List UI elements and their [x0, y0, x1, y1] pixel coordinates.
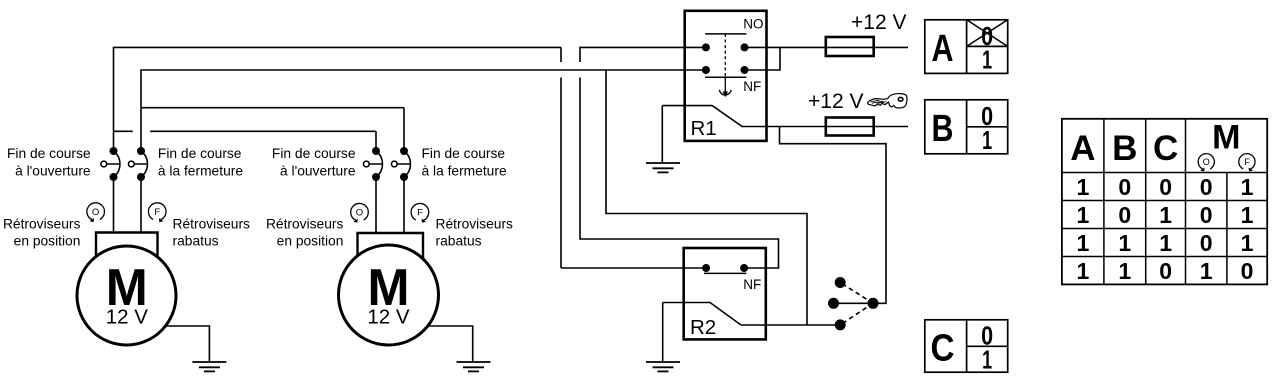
node position-up [835, 277, 846, 288]
svg-text:B: B [1112, 129, 1137, 168]
svg-text:0: 0 [1118, 174, 1131, 200]
motor M2 [339, 233, 439, 345]
svg-text:Fin de course: Fin de course [158, 146, 242, 161]
svg-text:12 V: 12 V [106, 306, 148, 329]
relay R1 [685, 11, 767, 141]
R1 armature dashed link [724, 34, 726, 77]
svg-text:NF: NF [743, 79, 761, 94]
wire [560, 47, 562, 268]
wire [141, 70, 706, 151]
table data rows [1077, 174, 1254, 284]
svg-text:F: F [417, 208, 423, 219]
svg-text:Fin de course: Fin de course [7, 146, 91, 161]
svg-text:0: 0 [1200, 230, 1213, 256]
svg-text:O: O [356, 208, 363, 219]
R2 contact pins [702, 264, 710, 272]
wire [580, 47, 779, 268]
svg-text:1: 1 [982, 125, 992, 155]
svg-text:Rétroviseurs: Rétroviseurs [3, 216, 81, 231]
relay R2 [684, 248, 766, 339]
wire motor M2 to ground [424, 326, 473, 362]
svg-text:R1: R1 [691, 117, 717, 140]
svg-text:en position: en position [14, 233, 81, 248]
R1 contact pins [702, 43, 710, 51]
svg-text:Fin de course: Fin de course [272, 146, 356, 161]
rotation symbol O (M2 en position) [351, 203, 369, 222]
fuse F1 [826, 37, 874, 56]
svg-text:rabatus: rabatus [436, 233, 482, 248]
limit switch S1b (fermeture M1) [128, 147, 147, 181]
svg-text:0: 0 [1200, 202, 1213, 228]
svg-text:en position: en position [277, 233, 344, 248]
svg-text:à l'ouverture: à l'ouverture [280, 164, 356, 179]
wire R2 output to selector [741, 324, 840, 326]
svg-text:rabatus: rabatus [173, 233, 219, 248]
R1 NF bar [705, 76, 746, 78]
label Fin de course à l'ouverture (M1) [7, 146, 91, 179]
svg-text:A: A [1070, 129, 1095, 168]
fuse F2 [826, 118, 874, 136]
svg-text:à l'ouverture: à l'ouverture [15, 164, 91, 179]
node net-ouverture [114, 47, 707, 268]
svg-text:1: 1 [982, 45, 992, 75]
ground under motor M1 [192, 362, 226, 371]
motor M1 [77, 233, 176, 346]
svg-text:+12 V: +12 V [808, 90, 863, 113]
wire [114, 47, 562, 151]
wire +12V key to selector common [780, 127, 887, 304]
wire [561, 267, 706, 269]
R1 armature arrow [719, 77, 731, 97]
svg-text:M: M [1212, 119, 1240, 157]
label Rétroviseurs rabatus (M2) [436, 216, 514, 248]
svg-text:1: 1 [1241, 174, 1254, 200]
svg-text:O: O [92, 207, 99, 218]
signal box C [925, 320, 1008, 375]
svg-text:1: 1 [982, 344, 992, 374]
svg-text:1: 1 [1077, 174, 1090, 200]
svg-text:NF: NF [743, 277, 761, 292]
svg-text:1: 1 [1077, 258, 1090, 284]
node common [868, 298, 879, 309]
label Fin de course à la fermeture (M1) [158, 146, 243, 179]
svg-text:0: 0 [1159, 258, 1172, 284]
key icon (ignition) [868, 94, 907, 108]
node position-mid [828, 298, 839, 309]
wire R2 lever to ground [662, 303, 664, 362]
svg-text:0: 0 [1241, 258, 1254, 284]
rotation symbol O (M1 en position) [87, 203, 105, 222]
svg-text:à la fermeture: à la fermeture [158, 164, 243, 179]
label Rétroviseurs en position (M2) [266, 216, 344, 248]
svg-text:1: 1 [1159, 230, 1172, 256]
svg-text:1: 1 [1118, 258, 1131, 284]
svg-text:1: 1 [1241, 202, 1254, 228]
svg-text:0: 0 [1159, 174, 1172, 200]
wire switch legs to motor M1 [114, 177, 142, 233]
svg-text:Rétroviseurs: Rétroviseurs [436, 216, 514, 231]
svg-text:B: B [932, 108, 954, 150]
svg-text:1: 1 [1200, 258, 1213, 284]
limit switch S2b (fermeture M2) [391, 147, 410, 181]
rotation symbol F (M2 rabatus) [411, 203, 429, 222]
svg-text:12 V: 12 V [367, 306, 409, 329]
truth table [1062, 119, 1267, 285]
svg-text:NO: NO [743, 17, 763, 32]
label Rétroviseurs rabatus (M1) [173, 216, 251, 248]
wire R1 NO output to fuse F1 [745, 46, 909, 48]
svg-text:F: F [1244, 157, 1250, 167]
svg-text:R2: R2 [690, 316, 716, 339]
svg-text:C: C [1153, 129, 1178, 168]
wire motor M1 to ground [158, 326, 209, 362]
limit switch S1a (ouverture M1) [101, 147, 120, 181]
svg-text:0: 0 [1200, 174, 1213, 200]
node net-fermeture [141, 70, 807, 325]
svg-text:C: C [931, 327, 955, 369]
rotation symbol F (M1 rabatus) [148, 203, 166, 222]
svg-text:1: 1 [1077, 230, 1090, 256]
svg-text:O: O [1203, 157, 1210, 167]
wire [114, 131, 377, 151]
label Fin de course à l'ouverture (M2) [272, 146, 356, 179]
wire [606, 70, 807, 325]
svg-text:+12 V: +12 V [851, 11, 906, 34]
ground under motor M2 [457, 362, 491, 371]
table rotation symbol O [1198, 154, 1214, 172]
svg-text:Fin de course: Fin de course [422, 146, 506, 161]
svg-text:Rétroviseurs: Rétroviseurs [173, 216, 251, 231]
selector switch (3-position) [828, 277, 879, 330]
svg-text:1: 1 [1159, 202, 1172, 228]
label Rétroviseurs en position (M1) [3, 216, 81, 248]
svg-text:1: 1 [1118, 230, 1131, 256]
limit switch S2a (ouverture M2) [363, 147, 382, 181]
wire switch legs to motor M2 [376, 177, 404, 233]
label Fin de course à la fermeture (M2) [422, 146, 507, 179]
dashed lever up [840, 283, 873, 304]
X cross on A=0 cell [967, 20, 1008, 47]
wire R2 lever pivot [663, 303, 741, 326]
svg-text:1: 1 [1077, 202, 1090, 228]
R1 NO bar [705, 33, 746, 35]
R2 NF bar [704, 272, 746, 274]
svg-text:1: 1 [1241, 230, 1254, 256]
svg-text:F: F [154, 207, 160, 218]
wire [141, 108, 404, 151]
node position-down [835, 319, 846, 330]
node net-R1NO [580, 47, 779, 268]
wire R1 NF output stub [745, 47, 781, 70]
dashed lever down [840, 303, 873, 325]
ground under relay R2 [646, 362, 680, 371]
signal box B [925, 100, 1008, 155]
svg-text:A: A [932, 28, 954, 70]
svg-text:Rétroviseurs: Rétroviseurs [266, 216, 344, 231]
ground under relay R1 [646, 163, 680, 172]
svg-text:0: 0 [1118, 202, 1131, 228]
wire R1 coil lever to +12V key fuse [662, 106, 908, 127]
signal box A [925, 20, 1008, 75]
table rotation symbol F [1239, 154, 1255, 172]
wire R1 lever to ground [661, 106, 663, 163]
svg-text:à la fermeture: à la fermeture [422, 164, 507, 179]
